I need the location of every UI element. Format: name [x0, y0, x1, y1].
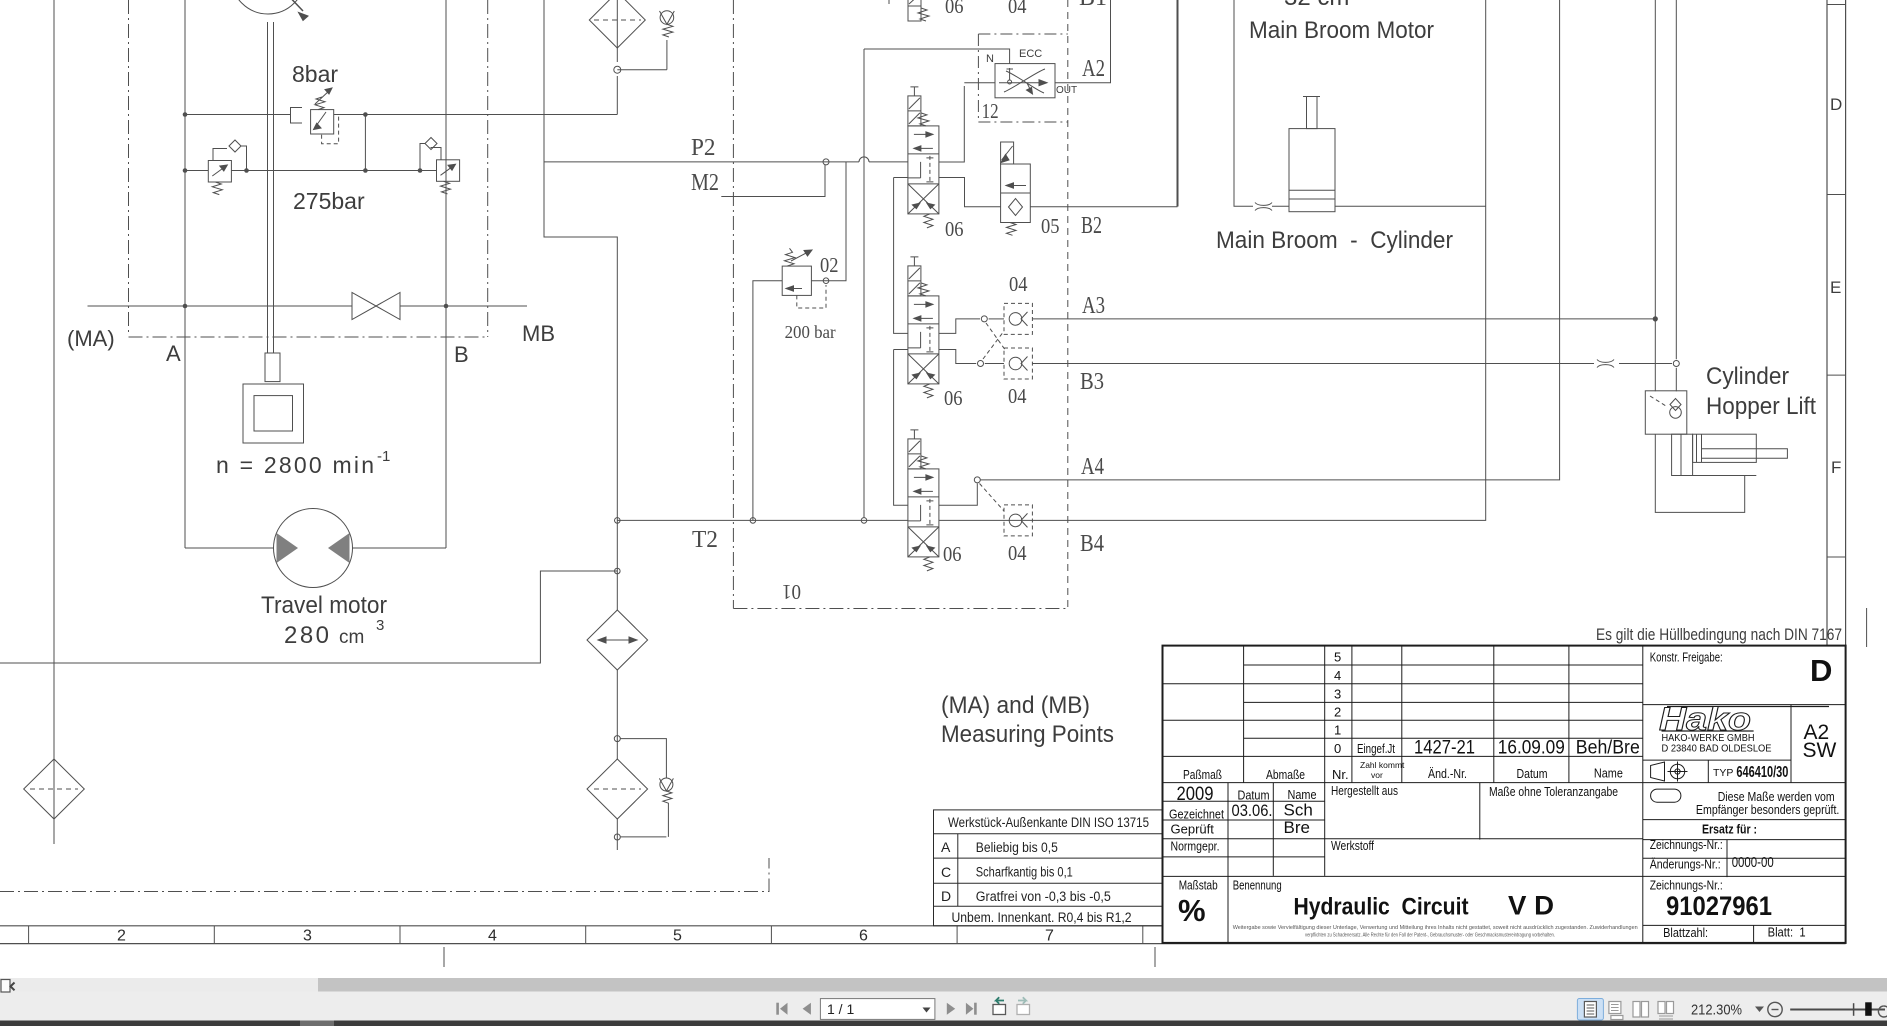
- svg-text:Werkstoff: Werkstoff: [1331, 838, 1374, 853]
- svg-text:B: B: [454, 342, 469, 367]
- svg-text:Zahl kommt: Zahl kommt: [1360, 760, 1405, 770]
- svg-text:Beh/Bre: Beh/Bre: [1576, 738, 1640, 759]
- svg-text:Eingef.Jt: Eingef.Jt: [1357, 742, 1395, 756]
- svg-text:B1: B1: [1079, 0, 1107, 11]
- svg-text:8bar: 8bar: [292, 61, 338, 87]
- svg-text:Scharfkantig bis 0,1: Scharfkantig bis 0,1: [976, 865, 1073, 880]
- svg-text:Zeichnungs-Nr.:: Zeichnungs-Nr.:: [1650, 837, 1723, 852]
- svg-text:Blatt: 1: Blatt: 1: [1768, 925, 1806, 940]
- svg-text:D: D: [1830, 95, 1842, 114]
- svg-text:E: E: [1830, 278, 1841, 297]
- svg-text:OUT: OUT: [1056, 85, 1077, 96]
- svg-text:91027961: 91027961: [1666, 891, 1772, 921]
- svg-text:(MA) and (MB): (MA) and (MB): [941, 692, 1090, 719]
- svg-text:Maße ohne Toleranzangabe: Maße ohne Toleranzangabe: [1489, 784, 1618, 799]
- svg-text:TYP: TYP: [1713, 767, 1733, 779]
- svg-text:cm: cm: [339, 627, 364, 648]
- svg-text:Änd.-Nr.: Änd.-Nr.: [1428, 766, 1467, 781]
- svg-text:Beliebig bis 0,5: Beliebig bis 0,5: [976, 840, 1058, 855]
- svg-text:Es gilt die Hüllbedingung nach: Es gilt die Hüllbedingung nach DIN 7167: [1596, 626, 1842, 644]
- svg-text:Cylinder: Cylinder: [1706, 363, 1789, 390]
- svg-text:06: 06: [945, 217, 964, 241]
- svg-text:Benennung: Benennung: [1233, 878, 1282, 893]
- svg-text:Gezeichnet: Gezeichnet: [1169, 807, 1224, 822]
- svg-text:32 cm: 32 cm: [1284, 0, 1349, 11]
- svg-text:7: 7: [1045, 928, 1054, 945]
- svg-text:212.30%: 212.30%: [1691, 1002, 1742, 1019]
- svg-text:3: 3: [1334, 686, 1341, 701]
- svg-text:6: 6: [859, 928, 868, 945]
- svg-text:275bar: 275bar: [293, 188, 365, 214]
- svg-text:F: F: [1831, 458, 1841, 477]
- svg-text:B2: B2: [1081, 213, 1102, 239]
- svg-text:16.09.09: 16.09.09: [1498, 738, 1565, 759]
- svg-text:Sch: Sch: [1284, 801, 1313, 820]
- svg-text:200 bar: 200 bar: [785, 322, 836, 342]
- svg-text:C: C: [941, 864, 951, 880]
- svg-text:B3: B3: [1080, 369, 1104, 395]
- svg-text:M2: M2: [691, 170, 719, 196]
- svg-text:02: 02: [820, 253, 839, 277]
- svg-text:Gratfrei von -0,3 bis -0,5: Gratfrei von -0,3 bis -0,5: [976, 889, 1111, 904]
- svg-text:-1: -1: [377, 448, 390, 465]
- svg-text:06: 06: [945, 0, 964, 18]
- svg-text:5: 5: [673, 928, 682, 945]
- svg-text:646410/30: 646410/30: [1736, 764, 1788, 781]
- svg-text:verpflichten zu Schadenersatz.: verpflichten zu Schadenersatz. Alle Rech…: [1305, 933, 1555, 939]
- svg-text:01: 01: [782, 580, 801, 604]
- svg-text:Unbem. Innenkant. R0,4 bis R1,: Unbem. Innenkant. R0,4 bis R1,2: [952, 910, 1132, 925]
- svg-text:12: 12: [982, 99, 999, 123]
- svg-text:Bre: Bre: [1284, 818, 1310, 837]
- svg-text:Ersatz für :: Ersatz für :: [1702, 821, 1757, 836]
- svg-text:T2: T2: [692, 527, 718, 553]
- svg-text:n = 2800 min: n = 2800 min: [216, 452, 374, 478]
- svg-text:N: N: [986, 53, 994, 65]
- svg-text:Änderungs-Nr.:: Änderungs-Nr.:: [1650, 857, 1721, 872]
- svg-text:2009: 2009: [1177, 784, 1214, 805]
- svg-text:3: 3: [376, 617, 384, 634]
- svg-text:Konstr. Freigabe:: Konstr. Freigabe:: [1650, 650, 1723, 665]
- svg-text:D 23840 BAD OLDESLOE: D 23840 BAD OLDESLOE: [1662, 743, 1772, 755]
- svg-text:SW: SW: [1803, 739, 1837, 762]
- svg-text:Abmaße: Abmaße: [1266, 767, 1305, 782]
- svg-text:%: %: [1178, 893, 1206, 928]
- svg-text:4: 4: [488, 928, 497, 945]
- svg-text:Nr.: Nr.: [1332, 767, 1349, 782]
- svg-text:1: 1: [1334, 723, 1341, 738]
- svg-text:P2: P2: [691, 135, 716, 161]
- svg-text:Datum: Datum: [1517, 766, 1548, 781]
- svg-text:D: D: [941, 888, 951, 904]
- svg-text:4: 4: [1334, 668, 1341, 683]
- svg-text:2: 2: [1334, 705, 1341, 720]
- svg-text:Normgepr.: Normgepr.: [1171, 839, 1220, 854]
- svg-text:Hako: Hako: [1659, 701, 1751, 737]
- svg-text:A: A: [941, 839, 951, 855]
- svg-text:06: 06: [943, 542, 962, 566]
- svg-text:1427-21: 1427-21: [1414, 738, 1475, 759]
- svg-text:ECC: ECC: [1019, 48, 1042, 60]
- svg-text:(MA): (MA): [67, 326, 115, 351]
- svg-text:MB: MB: [522, 321, 555, 346]
- svg-text:Main Broom Motor: Main Broom Motor: [1249, 17, 1434, 44]
- svg-text:B4: B4: [1080, 531, 1104, 557]
- svg-text:Maßstab: Maßstab: [1179, 878, 1218, 893]
- svg-text:Blattzahl:: Blattzahl:: [1663, 925, 1708, 940]
- svg-text:Hopper Lift: Hopper Lift: [1706, 393, 1816, 420]
- svg-text:Diese Maße werden vom: Diese Maße werden vom: [1718, 790, 1835, 804]
- svg-text:0000-00: 0000-00: [1732, 854, 1774, 871]
- svg-text:05: 05: [1041, 214, 1060, 238]
- svg-text:Werkstück-Außenkante DIN ISO: Werkstück-Außenkante DIN ISO 13715: [948, 815, 1149, 830]
- svg-text:Paßmaß: Paßmaß: [1183, 767, 1222, 782]
- svg-text:Empfänger besonders geprüft.: Empfänger besonders geprüft.: [1696, 803, 1840, 817]
- svg-text:04: 04: [1009, 272, 1028, 296]
- svg-text:Measuring Points: Measuring Points: [941, 721, 1114, 748]
- svg-text:vor: vor: [1371, 770, 1383, 780]
- svg-text:03.06.: 03.06.: [1232, 801, 1273, 820]
- svg-text:Main Broom - Cylinder: Main Broom - Cylinder: [1216, 227, 1453, 254]
- svg-text:A3: A3: [1082, 293, 1105, 319]
- svg-text:3: 3: [303, 928, 312, 945]
- svg-text:06: 06: [944, 386, 963, 410]
- svg-text:Hergestellt aus: Hergestellt aus: [1331, 783, 1398, 798]
- svg-text:A2: A2: [1082, 56, 1105, 82]
- svg-text:Geprüft: Geprüft: [1171, 821, 1215, 836]
- svg-text:5: 5: [1334, 650, 1341, 665]
- svg-text:Name: Name: [1594, 766, 1623, 781]
- svg-text:1 / 1: 1 / 1: [827, 1001, 854, 1017]
- svg-text:Weitergabe sowie Vervielfältig: Weitergabe sowie Vervielfältigung dieser…: [1233, 925, 1638, 931]
- svg-text:280: 280: [284, 622, 329, 649]
- svg-text:Travel motor: Travel motor: [261, 592, 387, 619]
- svg-text:2: 2: [117, 928, 126, 945]
- svg-text:04: 04: [1008, 384, 1027, 408]
- svg-text:A: A: [166, 341, 181, 366]
- svg-text:0: 0: [1334, 741, 1341, 756]
- svg-text:Hydraulic Circuit: Hydraulic Circuit: [1294, 894, 1469, 921]
- svg-text:D: D: [1810, 653, 1832, 688]
- svg-text:04: 04: [1008, 541, 1027, 565]
- svg-text:A4: A4: [1081, 454, 1104, 480]
- svg-text:V D: V D: [1508, 891, 1554, 921]
- svg-text:04: 04: [1008, 0, 1027, 18]
